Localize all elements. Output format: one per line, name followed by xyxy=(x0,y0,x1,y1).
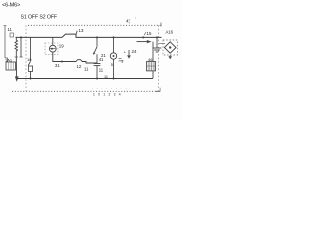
svg-text:11: 11 xyxy=(8,27,13,32)
svg-text:10: 10 xyxy=(27,57,32,62)
svg-text:24: 24 xyxy=(132,49,137,54)
svg-text:15: 15 xyxy=(147,31,152,36)
svg-text::: : xyxy=(135,15,136,20)
svg-text:<6-M6>: <6-M6> xyxy=(2,3,20,9)
svg-text:S1 OFF S2 OFF: S1 OFF S2 OFF xyxy=(21,15,57,21)
svg-text:13: 13 xyxy=(79,28,84,33)
svg-text:1 0 1 2 3 4: 1 0 1 2 3 4 xyxy=(93,92,122,96)
svg-text:4¦: 4¦ xyxy=(126,19,130,24)
svg-text:41: 41 xyxy=(99,57,104,62)
svg-text:11: 11 xyxy=(84,66,89,71)
svg-text:A16: A16 xyxy=(166,30,174,35)
svg-text:31: 31 xyxy=(55,63,60,68)
svg-text:5: 5 xyxy=(111,63,113,67)
svg-text:19: 19 xyxy=(59,44,64,49)
svg-text:+: + xyxy=(124,51,127,55)
svg-text:11: 11 xyxy=(99,67,104,72)
svg-text:12: 12 xyxy=(77,64,82,69)
